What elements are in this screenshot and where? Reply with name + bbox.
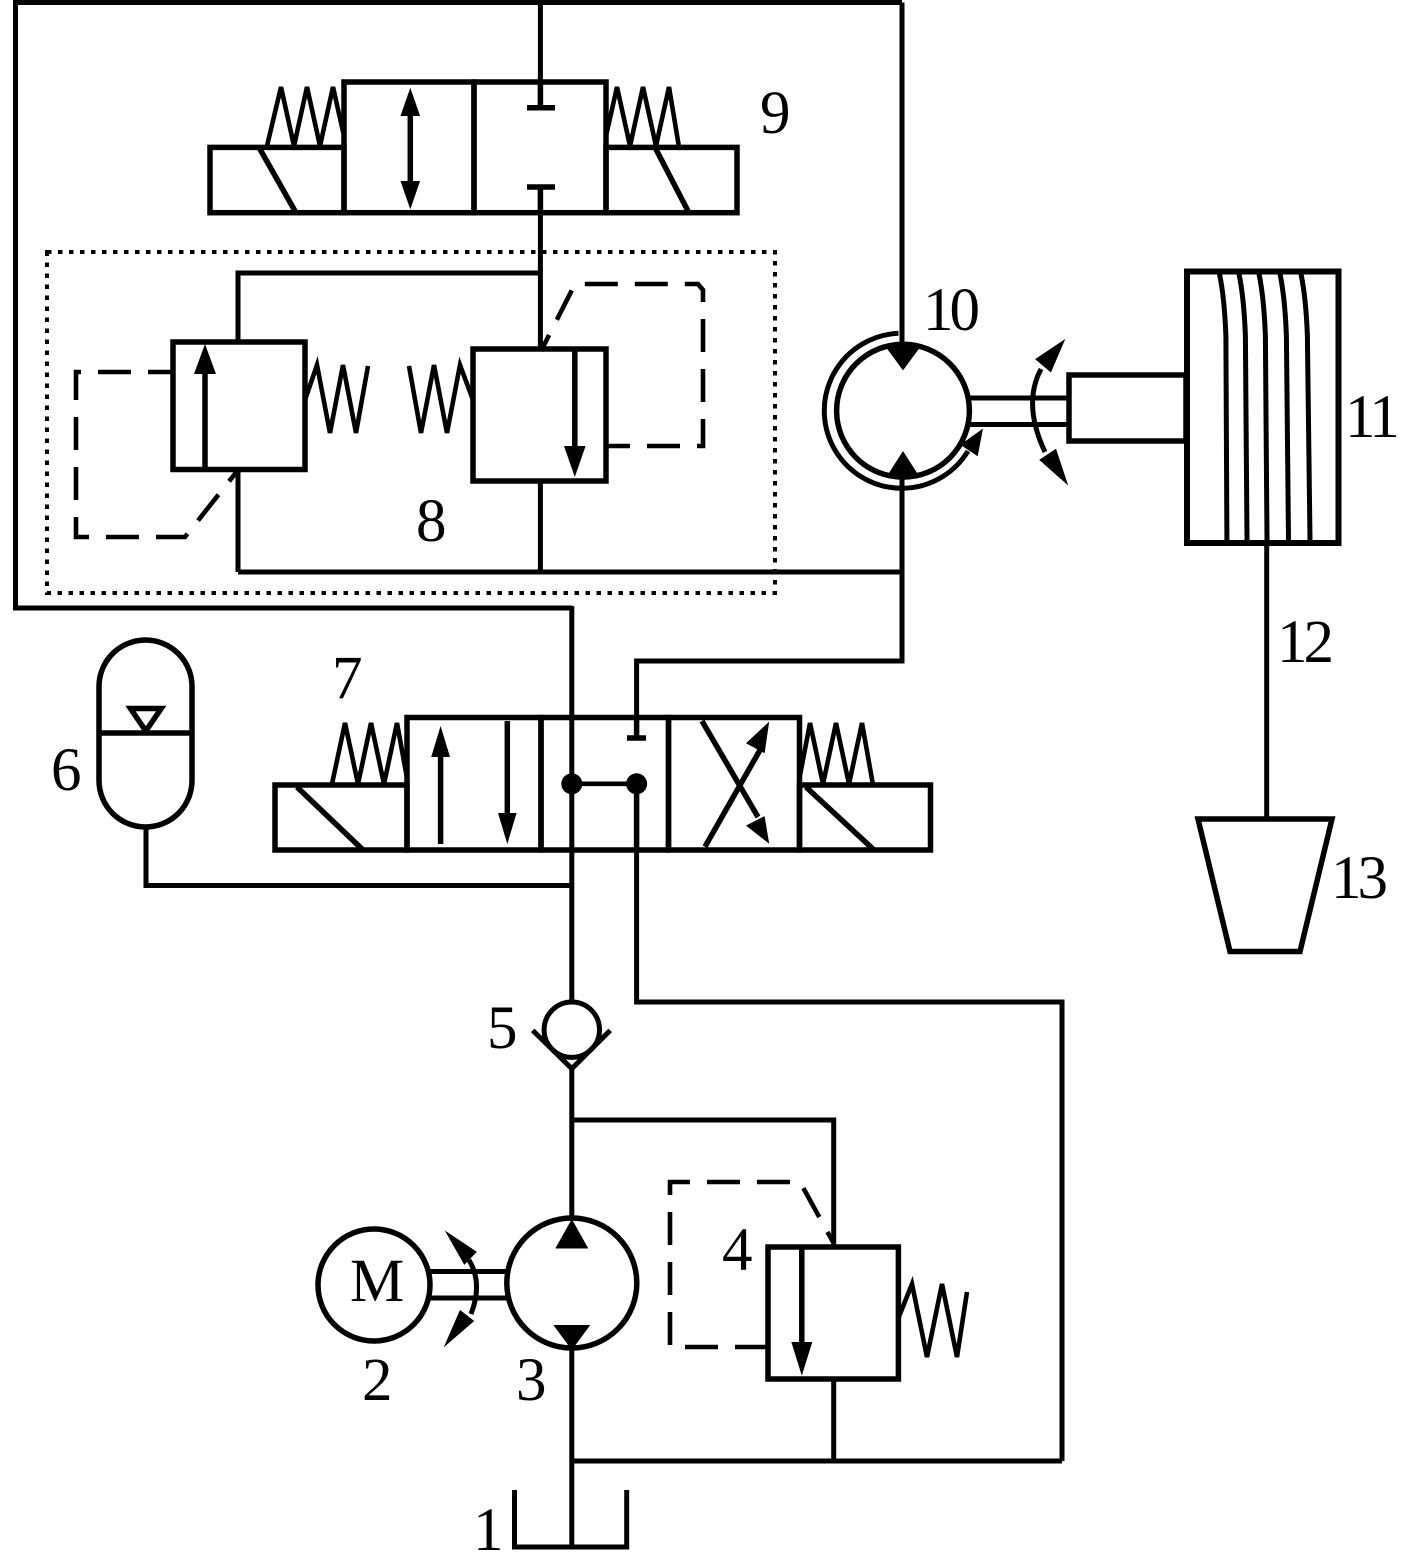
CB right valve box bbox=[473, 349, 606, 481]
CB right spring bbox=[409, 365, 473, 433]
wire motor 10 supply from top border bbox=[900, 3, 905, 346]
wire bottom tank bus bbox=[572, 1459, 1062, 1464]
hydraulic motor 10 bbox=[824, 333, 1186, 488]
position square center V7 bbox=[541, 718, 669, 851]
hook weight 13 bbox=[1198, 819, 1332, 952]
svg-text:7: 7 bbox=[332, 645, 363, 712]
blocked port T in center V7 bbox=[634, 718, 640, 739]
CB right valve arrow down bbox=[572, 349, 578, 448]
solenoid left box V9 bbox=[210, 147, 344, 212]
spring left V9 bbox=[267, 87, 344, 146]
wire relief valve 4 outlet bbox=[831, 1379, 836, 1461]
blocked port bottom V9 bbox=[527, 184, 555, 190]
spring left V7 bbox=[332, 723, 407, 784]
winch drum 11 bbox=[1187, 272, 1339, 544]
electric motor M 2 bbox=[318, 1229, 430, 1341]
spring right V7 bbox=[800, 723, 874, 785]
svg-text:9: 9 bbox=[760, 80, 791, 147]
blocked port top V9 bbox=[538, 82, 544, 108]
position square right V9 bbox=[474, 82, 606, 213]
wire P-line vertical through valve 7 down to check valve bbox=[569, 606, 574, 1002]
solenoid right box V7 bbox=[800, 785, 931, 850]
accumulator 6 bbox=[99, 640, 192, 827]
coupling box bbox=[1069, 375, 1186, 441]
rotation double arrow at pump shaft bbox=[469, 1260, 477, 1314]
port line below right dot V7 bbox=[634, 784, 640, 851]
svg-text:10: 10 bbox=[923, 277, 979, 344]
shuttle dots in center V7 bbox=[561, 773, 582, 794]
position square right V7 bbox=[669, 718, 800, 851]
svg-text:4: 4 bbox=[722, 1217, 753, 1284]
wire branch to block 8 left valve bbox=[238, 273, 540, 343]
CB left pilot dashed bbox=[76, 372, 238, 537]
svg-text:8: 8 bbox=[416, 488, 447, 555]
wire block 8 bottom bus bbox=[238, 570, 902, 575]
spring right V9 bbox=[606, 87, 679, 147]
wire outer frame top-left-bottom bbox=[16, 3, 903, 609]
wire left CB valve bottom port bbox=[236, 469, 241, 572]
directional valve 7 bbox=[275, 718, 931, 851]
position square left V9 bbox=[344, 82, 474, 213]
wire check valve bottom to pump bbox=[569, 1068, 574, 1218]
svg-text:11: 11 bbox=[1345, 384, 1396, 451]
CB left pilot stub bbox=[148, 370, 173, 375]
wire motor 10 bottom to valve 7 B port bbox=[637, 471, 902, 719]
double arrow V9 bbox=[408, 106, 414, 190]
svg-text:3: 3 bbox=[516, 1347, 547, 1414]
wire accumulator to P-line bbox=[146, 826, 572, 886]
svg-text:5: 5 bbox=[487, 995, 518, 1062]
rotation arc around motor 10 bbox=[824, 333, 968, 488]
X arrows V7 bbox=[705, 750, 760, 847]
wire pump bottom to tank bbox=[569, 1348, 574, 1546]
position square left V7 bbox=[407, 718, 541, 851]
shaft motor 10 bbox=[967, 396, 1069, 401]
svg-text:1: 1 bbox=[473, 1497, 504, 1564]
rope 12 bbox=[1264, 543, 1269, 819]
arrow up V7 bbox=[438, 750, 444, 844]
pilot dashed relief 4 bbox=[670, 1182, 833, 1347]
arrow down V7 bbox=[505, 721, 511, 814]
solenoid right box V9 bbox=[606, 147, 737, 212]
wire valve 9 supply from top border bbox=[538, 3, 543, 85]
CB left valve box bbox=[173, 342, 305, 470]
wire right CB valve bottom port bbox=[538, 480, 543, 572]
relief valve 4 bbox=[670, 1182, 967, 1379]
check valve 5 bbox=[533, 1002, 611, 1069]
directional valve 9 bbox=[210, 82, 737, 213]
tank 1 bbox=[515, 1490, 627, 1547]
svg-text:M: M bbox=[350, 1248, 404, 1315]
spring relief 4 bbox=[898, 1284, 967, 1357]
CB right pilot dashed bbox=[541, 284, 703, 446]
svg-text:2: 2 bbox=[362, 1347, 393, 1414]
shaft pump 2-3 bbox=[430, 1269, 508, 1274]
CB left spring bbox=[305, 365, 368, 433]
wire valve 9 bottom to block 8 right valve bbox=[538, 211, 543, 350]
svg-text:13: 13 bbox=[1331, 845, 1387, 912]
wire valve 7 below to right bypass down bbox=[637, 849, 1062, 1461]
rotation double arrow at shaft bbox=[1033, 369, 1045, 452]
counterbalance block 8 dotted enclosure bbox=[47, 252, 775, 593]
svg-text:12: 12 bbox=[1277, 609, 1332, 676]
CB left valve arrow up bbox=[202, 372, 208, 469]
wire check valve to relief valve 4 bbox=[572, 1120, 834, 1247]
svg-text:6: 6 bbox=[51, 737, 82, 804]
solenoid left box V7 bbox=[275, 785, 407, 850]
CB right pilot stub bbox=[606, 444, 630, 449]
pump 3 bbox=[507, 1218, 637, 1350]
